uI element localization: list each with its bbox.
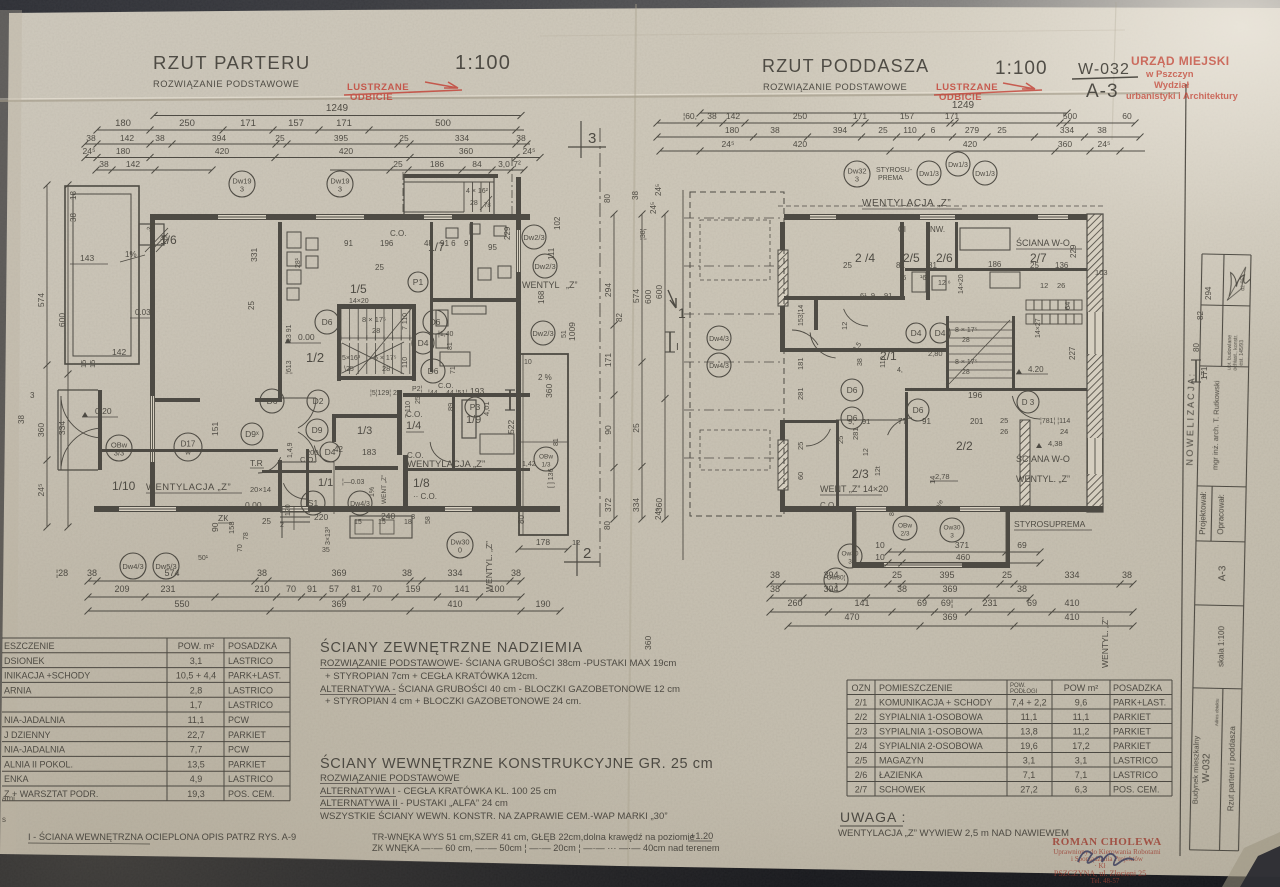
svg-text:294: 294 — [603, 283, 613, 297]
svg-text:s: s — [2, 815, 6, 824]
svg-text:POS. CEM.: POS. CEM. — [228, 789, 275, 799]
svg-text:142: 142 — [120, 133, 134, 143]
svg-text:Adres obiektu: Adres obiektu — [1214, 698, 1220, 726]
svg-text:25: 25 — [247, 301, 256, 310]
svg-text:ROZWIĄZANIE PODSTAWOWE: ROZWIĄZANIE PODSTAWOWE — [763, 82, 907, 92]
dim chain left row5 partial — [93, 159, 216, 174]
svg-text:44,¦51¦: 44,¦51¦ — [446, 390, 467, 397]
svg-text:W-032: W-032 — [1201, 753, 1213, 783]
svg-text:394: 394 — [833, 125, 847, 135]
svg-text:25: 25 — [1030, 261, 1039, 270]
red stamp URZAD MIEJSKI — [1126, 54, 1239, 101]
svg-text:„Z”: „Z” — [566, 280, 578, 290]
svg-text:3: 3 — [338, 185, 342, 194]
logo sketch in title block — [1229, 273, 1250, 297]
svg-text:D4: D4 — [418, 338, 429, 348]
svg-text:369: 369 — [331, 568, 346, 578]
svg-text:27,2: 27,2 — [1020, 784, 1038, 794]
left plan outer wall top — [150, 214, 530, 220]
svg-text:360: 360 — [36, 423, 46, 437]
svg-text:I: I — [676, 342, 679, 353]
right plan chain 1249 — [697, 100, 1071, 117]
svg-text:POS. CEM.: POS. CEM. — [1113, 784, 1160, 794]
right plan bottom wall — [784, 506, 1103, 512]
interior wall room 1/10 top — [99, 449, 278, 452]
svg-text:Dw1/3: Dw1/3 — [975, 171, 995, 178]
svg-text:LASTRICO: LASTRICO — [228, 774, 273, 784]
svg-text:9,6: 9,6 — [1075, 697, 1088, 707]
window bottom wall 3 — [445, 506, 472, 512]
svg-text:WENT „Z” 14×20: WENT „Z” 14×20 — [820, 484, 888, 494]
svg-text:2 /4: 2 /4 — [855, 251, 875, 265]
svg-text:69: 69 — [917, 598, 927, 608]
svg-text:¦38¦: ¦38¦ — [640, 228, 647, 240]
svg-text:Opracował:: Opracował: — [1216, 494, 1226, 535]
svg-text:4,38: 4,38 — [1048, 439, 1063, 448]
svg-text:7 110: 7 110 — [402, 313, 409, 330]
svg-text:ALNIA II POKOL.: ALNIA II POKOL. — [4, 759, 73, 769]
window in top wall 1 — [218, 214, 266, 220]
svg-text:skala 1:100: skala 1:100 — [1216, 625, 1226, 667]
svg-text:3,1: 3,1 — [190, 656, 203, 666]
svg-text:168: 168 — [537, 290, 546, 304]
door arc 2/3 annex — [806, 429, 830, 446]
svg-text:PCW: PCW — [228, 745, 250, 755]
interior wall vertical 2/5-2/6 — [926, 222, 930, 300]
svg-text:D6: D6 — [322, 317, 333, 327]
svg-text:279: 279 — [965, 125, 979, 135]
wall stub 2/4 left — [814, 296, 818, 330]
svg-text:PARK+LAST.: PARK+LAST. — [1113, 697, 1166, 707]
svg-text:100: 100 — [489, 584, 504, 594]
svg-text:OBw: OBw — [898, 523, 912, 530]
interior wall segment 2/3 — [836, 420, 839, 506]
svg-text:25: 25 — [796, 442, 805, 450]
svg-text:50¹: 50¹ — [198, 555, 209, 562]
svg-text:360: 360 — [459, 146, 473, 156]
svg-text:28¹: 28¹ — [295, 257, 302, 268]
dim 178 below terrace — [516, 537, 572, 553]
svg-text:8 × 17⁵: 8 × 17⁵ — [955, 327, 978, 334]
interior wall vertical 1/6-1/2 — [278, 222, 282, 398]
svg-text:3: 3 — [950, 533, 954, 540]
dim chain left row2 — [94, 118, 525, 134]
circle Dw19/3 a — [229, 171, 255, 197]
svg-text:10,5 + 4,4: 10,5 + 4,4 — [176, 671, 216, 681]
terrace rect right side — [519, 354, 568, 535]
window bottom wall 1 — [119, 506, 176, 512]
svg-text:1/1: 1/1 — [318, 477, 333, 489]
svg-text:11,2: 11,2 — [1073, 726, 1090, 736]
svg-text:3×13³: 3×13³ — [325, 526, 332, 545]
svg-text:26: 26 — [1000, 427, 1008, 436]
svg-text:J DZIENNY: J DZIENNY — [4, 730, 51, 740]
svg-text:+ STYROPIAN 7cm + CEGŁA KRAT: + STYROPIAN 7cm + CEGŁA KRATÓWKA 12cm. — [325, 671, 538, 682]
svg-text:C.O.¦: C.O.¦ — [820, 501, 839, 510]
svg-text:181: 181 — [796, 357, 805, 370]
window in top wall 3 — [424, 214, 452, 220]
svg-text:24⁵: 24⁵ — [654, 184, 663, 196]
terrace door opening in left wall — [150, 396, 155, 462]
garage small cell — [139, 224, 164, 245]
svg-text:WENTYL: WENTYL — [522, 280, 560, 290]
svg-text:1249: 1249 — [952, 100, 975, 111]
interior wall hall — [306, 449, 309, 506]
bottom annex inner lines — [855, 512, 857, 562]
right plan bottom chain row3 — [767, 598, 1137, 616]
svg-text:1/3: 1/3 — [357, 425, 372, 437]
red note LUSTRZANE ODBICIE left — [344, 82, 462, 103]
svg-text:2/3: 2/3 — [852, 467, 869, 481]
svg-text:84: 84 — [472, 159, 482, 169]
svg-text:ami: ami — [2, 794, 15, 803]
svg-text:14×20: 14×20 — [349, 298, 369, 305]
svg-text:D6: D6 — [428, 366, 439, 376]
svg-text:ENKA: ENKA — [4, 774, 29, 784]
svg-text:4.20: 4.20 — [1028, 365, 1044, 374]
svg-text:24⁵: 24⁵ — [1098, 139, 1111, 149]
svg-text:2/3: 2/3 — [900, 531, 909, 538]
svg-text:D9ˣ: D9ˣ — [245, 429, 259, 439]
svg-text:WENTYLACJA „Z”: WENTYLACJA „Z” — [146, 482, 231, 493]
svg-text:RZUT PARTERU: RZUT PARTERU — [153, 52, 311, 73]
I-beam symbol — [509, 390, 511, 410]
roof zone vertical line — [682, 190, 684, 560]
svg-text:38: 38 — [1097, 125, 1107, 135]
section marker 2 bottom centre — [576, 540, 578, 576]
right plan bottom chain row4 — [785, 612, 1137, 630]
right plan top wall window 2 — [920, 214, 955, 220]
svg-text:7,1: 7,1 — [1023, 770, 1036, 780]
svg-text:ARNIA: ARNIA — [4, 685, 32, 695]
circle Dw19/3 b — [327, 171, 353, 197]
svg-text:28: 28 — [962, 369, 970, 376]
circle D4 a right — [906, 323, 926, 343]
svg-text:142: 142 — [726, 111, 740, 121]
svg-text:Dw4/3: Dw4/3 — [709, 363, 729, 370]
right plan top wall window 3 — [1038, 214, 1068, 220]
svg-text:4,: 4, — [897, 367, 903, 374]
svg-text:0.20: 0.20 — [95, 406, 112, 416]
right plan outer wall top — [784, 214, 1103, 220]
svg-text:38: 38 — [155, 133, 165, 143]
svg-text:110: 110 — [402, 357, 409, 368]
room 1/3 bottom wall — [335, 466, 398, 470]
svg-text:Wydział: Wydział — [1154, 80, 1190, 91]
svg-text:25: 25 — [836, 436, 845, 444]
svg-text:WENTYLACJA „Z” WYWIEW 2,5 m: WENTYLACJA „Z” WYWIEW 2,5 m NAD NAWIEWEM — [838, 828, 1069, 839]
interior wall 2/2 right hatched — [1020, 420, 1030, 506]
svg-text:97: 97 — [464, 239, 473, 248]
svg-text:196: 196 — [968, 390, 982, 400]
svg-text:Projektował:: Projektował: — [1198, 491, 1208, 535]
circle Dw2/3 a — [522, 225, 546, 249]
svg-text:4,01: 4,01 — [482, 401, 491, 416]
svg-text:91: 91 — [307, 584, 317, 594]
right plan bottom wall opening — [856, 506, 886, 512]
svg-text:UWAGA :: UWAGA : — [840, 809, 906, 825]
svg-text:89: 89 — [446, 403, 455, 411]
svg-text:Dw2/3: Dw2/3 — [532, 329, 553, 338]
svg-text:4 × 16²: 4 × 16² — [466, 188, 489, 195]
svg-text:229: 229 — [1069, 244, 1078, 258]
svg-text:7 110: 7 110 — [405, 401, 412, 418]
svg-text:LASTRICO: LASTRICO — [1113, 755, 1158, 765]
svg-text:157: 157 — [900, 111, 914, 121]
dash-dot drop lines annex — [402, 172, 404, 214]
svg-text:3: 3 — [30, 391, 35, 400]
svg-text:2: 2 — [583, 545, 591, 562]
svg-text:574: 574 — [36, 293, 46, 307]
svg-text:410: 410 — [1064, 612, 1079, 622]
svg-text:70: 70 — [372, 584, 382, 594]
vertical dim chain left 2 — [57, 182, 72, 531]
svg-text:ŚCIANA W-O: ŚCIANA W-O — [1016, 237, 1070, 248]
svg-text:38: 38 — [1122, 570, 1132, 580]
double door arcs 1/6 to 1/2 — [298, 398, 316, 428]
svg-text:Dw4/3: Dw4/3 — [350, 501, 370, 508]
svg-text:574: 574 — [631, 289, 641, 303]
opening bottom wall 2 — [282, 506, 308, 512]
left plan bottom chain row2 — [85, 584, 525, 601]
main vertical wall right of 1/3 — [397, 390, 402, 455]
svg-text:C.O.: C.O. — [390, 229, 406, 238]
svg-text:¦781¦ ¦114: ¦781¦ ¦114 — [1040, 418, 1070, 425]
svg-text:2/6: 2/6 — [855, 770, 868, 780]
svg-text:2/4: 2/4 — [855, 741, 868, 751]
svg-text:\25: \25 — [344, 366, 354, 373]
svg-text:80: 80 — [517, 515, 526, 524]
svg-text:PODŁOGI: PODŁOGI — [1010, 689, 1038, 695]
svg-text:mgr inż. arch. T. Rutkowski: mgr inż. arch. T. Rutkowski — [1211, 380, 1222, 470]
svg-text:2/5: 2/5 — [855, 755, 868, 765]
circle Ow30/3 left — [838, 544, 862, 568]
svg-text:24⁵: 24⁵ — [722, 139, 735, 149]
svg-text:D4: D4 — [935, 328, 946, 338]
garage annex outer rect — [65, 186, 139, 364]
svg-text:38: 38 — [257, 568, 267, 578]
svg-text:136: 136 — [1055, 261, 1069, 270]
svg-text:57: 57 — [329, 584, 339, 594]
svg-text:180: 180 — [725, 125, 739, 135]
stair diagonal cross — [342, 342, 404, 373]
svg-text:6¹, 9: 6¹, 9 — [860, 291, 875, 300]
svg-text:25: 25 — [997, 125, 1007, 135]
svg-text:3: 3 — [855, 175, 859, 184]
svg-text:1/3: 1/3 — [541, 462, 550, 469]
svg-text:250: 250 — [793, 111, 807, 121]
svg-text:0: 0 — [458, 546, 462, 555]
right plan bottom chain row2 — [767, 584, 1034, 602]
svg-text:38: 38 — [402, 568, 412, 578]
svg-text:103: 103 — [1095, 268, 1108, 277]
circle D6 d — [421, 359, 445, 383]
svg-text:141: 141 — [854, 598, 869, 608]
svg-text:186: 186 — [430, 159, 444, 169]
svg-text:80: 80 — [889, 508, 896, 516]
stair left wall — [337, 304, 341, 381]
svg-text:1/2: 1/2 — [306, 350, 324, 365]
svg-text:574: 574 — [164, 568, 179, 578]
svg-text:81: 81 — [928, 261, 937, 270]
circle Dw4/3 bottom — [120, 553, 146, 579]
svg-text:¦44,: ¦44, — [428, 390, 440, 397]
svg-text:260: 260 — [787, 598, 802, 608]
circle Dw1/3 c — [973, 161, 997, 185]
svg-text:334: 334 — [1064, 570, 1079, 580]
bath fixtures 1/7 — [446, 228, 458, 238]
circle D17w — [174, 433, 202, 461]
circle D9 a — [306, 419, 328, 441]
circle D6 right b — [841, 407, 863, 429]
svg-text:38: 38 — [770, 125, 780, 135]
svg-text:P1: P1 — [413, 277, 424, 287]
svg-text:70: 70 — [286, 584, 296, 594]
svg-text:1%: 1% — [369, 487, 376, 497]
svg-text:3: 3 — [588, 130, 596, 147]
svg-text:25: 25 — [878, 125, 888, 135]
svg-text:38: 38 — [897, 584, 907, 594]
wall stub left low — [784, 420, 836, 423]
svg-text:82: 82 — [615, 313, 624, 322]
svg-text:ESZCZENIE: ESZCZENIE — [4, 641, 55, 651]
svg-text:334: 334 — [1060, 125, 1074, 135]
svg-text:SCHOWEK: SCHOWEK — [879, 784, 926, 794]
mid vertical chain a — [603, 211, 618, 523]
svg-text:180: 180 — [115, 118, 131, 129]
svg-text:1,42: 1,42 — [522, 461, 536, 468]
svg-text:LASTRICO: LASTRICO — [228, 656, 273, 666]
vertical crease left of centre — [628, 4, 636, 866]
door arc 1/4 — [430, 442, 450, 462]
svg-text:WENT „Z”: WENT „Z” — [381, 475, 388, 504]
svg-text:420: 420 — [339, 146, 353, 156]
svg-text:0.00: 0.00 — [245, 500, 262, 510]
vertical crease top right — [1112, 2, 1116, 140]
svg-text:7²: 7² — [513, 159, 521, 169]
svg-text:25: 25 — [275, 133, 285, 143]
svg-text:D6: D6 — [913, 405, 924, 415]
circle S1 — [301, 491, 325, 515]
svg-text:25: 25 — [399, 133, 409, 143]
svg-text:91: 91 — [344, 239, 353, 248]
svg-text:6,3: 6,3 — [1075, 784, 1088, 794]
svg-text:CI: CI — [898, 225, 906, 234]
circle Dw1/3 a — [917, 161, 941, 185]
svg-text:ALTERNATYWA II - PUSTAKI „ALF: ALTERNATYWA II - PUSTAKI „ALFA” 24 cm — [320, 798, 508, 809]
svg-text:11,1: 11,1 — [1021, 712, 1038, 722]
svg-text:220: 220 — [314, 512, 328, 522]
svg-text:38: 38 — [87, 568, 97, 578]
svg-text:ŚCIANY ZEWNĘTRZNE NADZIEMIA: ŚCIANY ZEWNĘTRZNE NADZIEMIA — [320, 638, 583, 656]
svg-text:231: 231 — [160, 584, 175, 594]
circle OBw 1/3 — [534, 447, 558, 471]
right plan chain row2 — [654, 111, 1139, 127]
circle D9x — [241, 423, 263, 445]
svg-text:¦1,40: ¦1,40 — [438, 331, 454, 338]
svg-text:2/3: 2/3 — [855, 726, 868, 736]
svg-text:45: 45 — [424, 239, 433, 248]
svg-text:90: 90 — [603, 425, 613, 435]
svg-text:STYROSU-: STYROSU- — [876, 167, 913, 174]
svg-text:143: 143 — [80, 253, 94, 263]
svg-text:80: 80 — [603, 194, 612, 203]
svg-text:PCW: PCW — [228, 715, 250, 725]
room table attic — [847, 680, 1172, 796]
dim chain left 1249 — [151, 103, 525, 119]
svg-text:360: 360 — [1058, 139, 1072, 149]
svg-text:42: 42 — [334, 445, 343, 454]
svg-text:1249: 1249 — [326, 103, 349, 114]
svg-text:6 × 17⁵: 6 × 17⁵ — [374, 355, 397, 362]
left plan outer wall left — [150, 214, 155, 512]
porch step lines — [58, 389, 98, 391]
svg-text:209: 209 — [114, 584, 129, 594]
svg-text:28: 28 — [962, 337, 970, 344]
svg-text:10: 10 — [875, 540, 885, 550]
svg-text:ALTERNATYWA I - CEGŁA KRATÓWK: ALTERNATYWA I - CEGŁA KRATÓWKA KL. 100 2… — [320, 786, 556, 797]
svg-text:24⁵: 24⁵ — [654, 508, 663, 520]
svg-text:331: 331 — [249, 248, 259, 262]
svg-text:500: 500 — [435, 118, 451, 129]
svg-text:Dw1/3: Dw1/3 — [948, 162, 968, 169]
svg-text:KOMUNIKACJA + SCHODY: KOMUNIKACJA + SCHODY — [879, 697, 992, 707]
small walls near 2/6 — [955, 222, 958, 268]
svg-text:ŁAZIENKA: ŁAZIENKA — [879, 770, 923, 780]
svg-text:395: 395 — [939, 570, 954, 580]
svg-text:38: 38 — [17, 415, 26, 424]
horizontal fold crease — [0, 93, 1180, 101]
svg-text:WSZYSTKIE ŚCIANY WEWN. KONS: WSZYSTKIE ŚCIANY WEWN. KONSTR. NA ZAPRAW… — [320, 810, 668, 822]
svg-text:522: 522 — [506, 420, 516, 434]
svg-text:2/2: 2/2 — [855, 712, 868, 722]
svg-text:OBw: OBw — [539, 454, 553, 461]
interior vertical 2/2 left — [905, 392, 908, 506]
svg-text:Dw4/3: Dw4/3 — [709, 336, 729, 343]
svg-text:PARKIET: PARKIET — [1113, 712, 1151, 722]
interior wall 2/6 bottom — [905, 268, 1087, 271]
circle Ow30/3 annex — [940, 518, 964, 542]
svg-text:PARK+LAST.: PARK+LAST. — [228, 671, 281, 681]
svg-text:2/6: 2/6 — [936, 251, 953, 265]
svg-text:NIA-JADALNIA: NIA-JADALNIA — [4, 715, 65, 725]
wall above stairs right plan — [784, 348, 946, 352]
svg-text:POW m²: POW m² — [1064, 683, 1099, 693]
svg-text:14×27: 14×27 — [1035, 318, 1042, 338]
right plan top wall window 1 — [810, 214, 836, 220]
small fixture rect group bottom — [350, 516, 412, 538]
circle D2 — [307, 390, 329, 412]
door arc 2/4 — [810, 332, 836, 358]
svg-text:WENTYLACJA „Z”: WENTYLACJA „Z” — [862, 198, 951, 209]
svg-text:WENTYL. „Z”: WENTYL. „Z” — [1100, 617, 1110, 668]
svg-text:INIKACJA +SCHODY: INIKACJA +SCHODY — [4, 671, 90, 681]
svg-text:D6: D6 — [847, 385, 858, 395]
svg-text:281: 281 — [796, 387, 805, 400]
svg-text:60: 60 — [1122, 111, 1132, 121]
svg-text:141: 141 — [454, 584, 469, 594]
svg-text:28: 28 — [372, 326, 380, 335]
stair right wall — [412, 304, 416, 381]
kitchen fixtures 1/5 — [287, 232, 301, 248]
svg-text:38: 38 — [770, 584, 780, 594]
svg-text:PARKIET: PARKIET — [228, 730, 266, 740]
svg-text:180: 180 — [116, 146, 130, 156]
circle P3 — [465, 397, 485, 417]
svg-text:19,6: 19,6 — [1020, 741, 1038, 751]
right plan chain row3 — [654, 125, 1144, 141]
stair block top wall — [338, 304, 413, 309]
